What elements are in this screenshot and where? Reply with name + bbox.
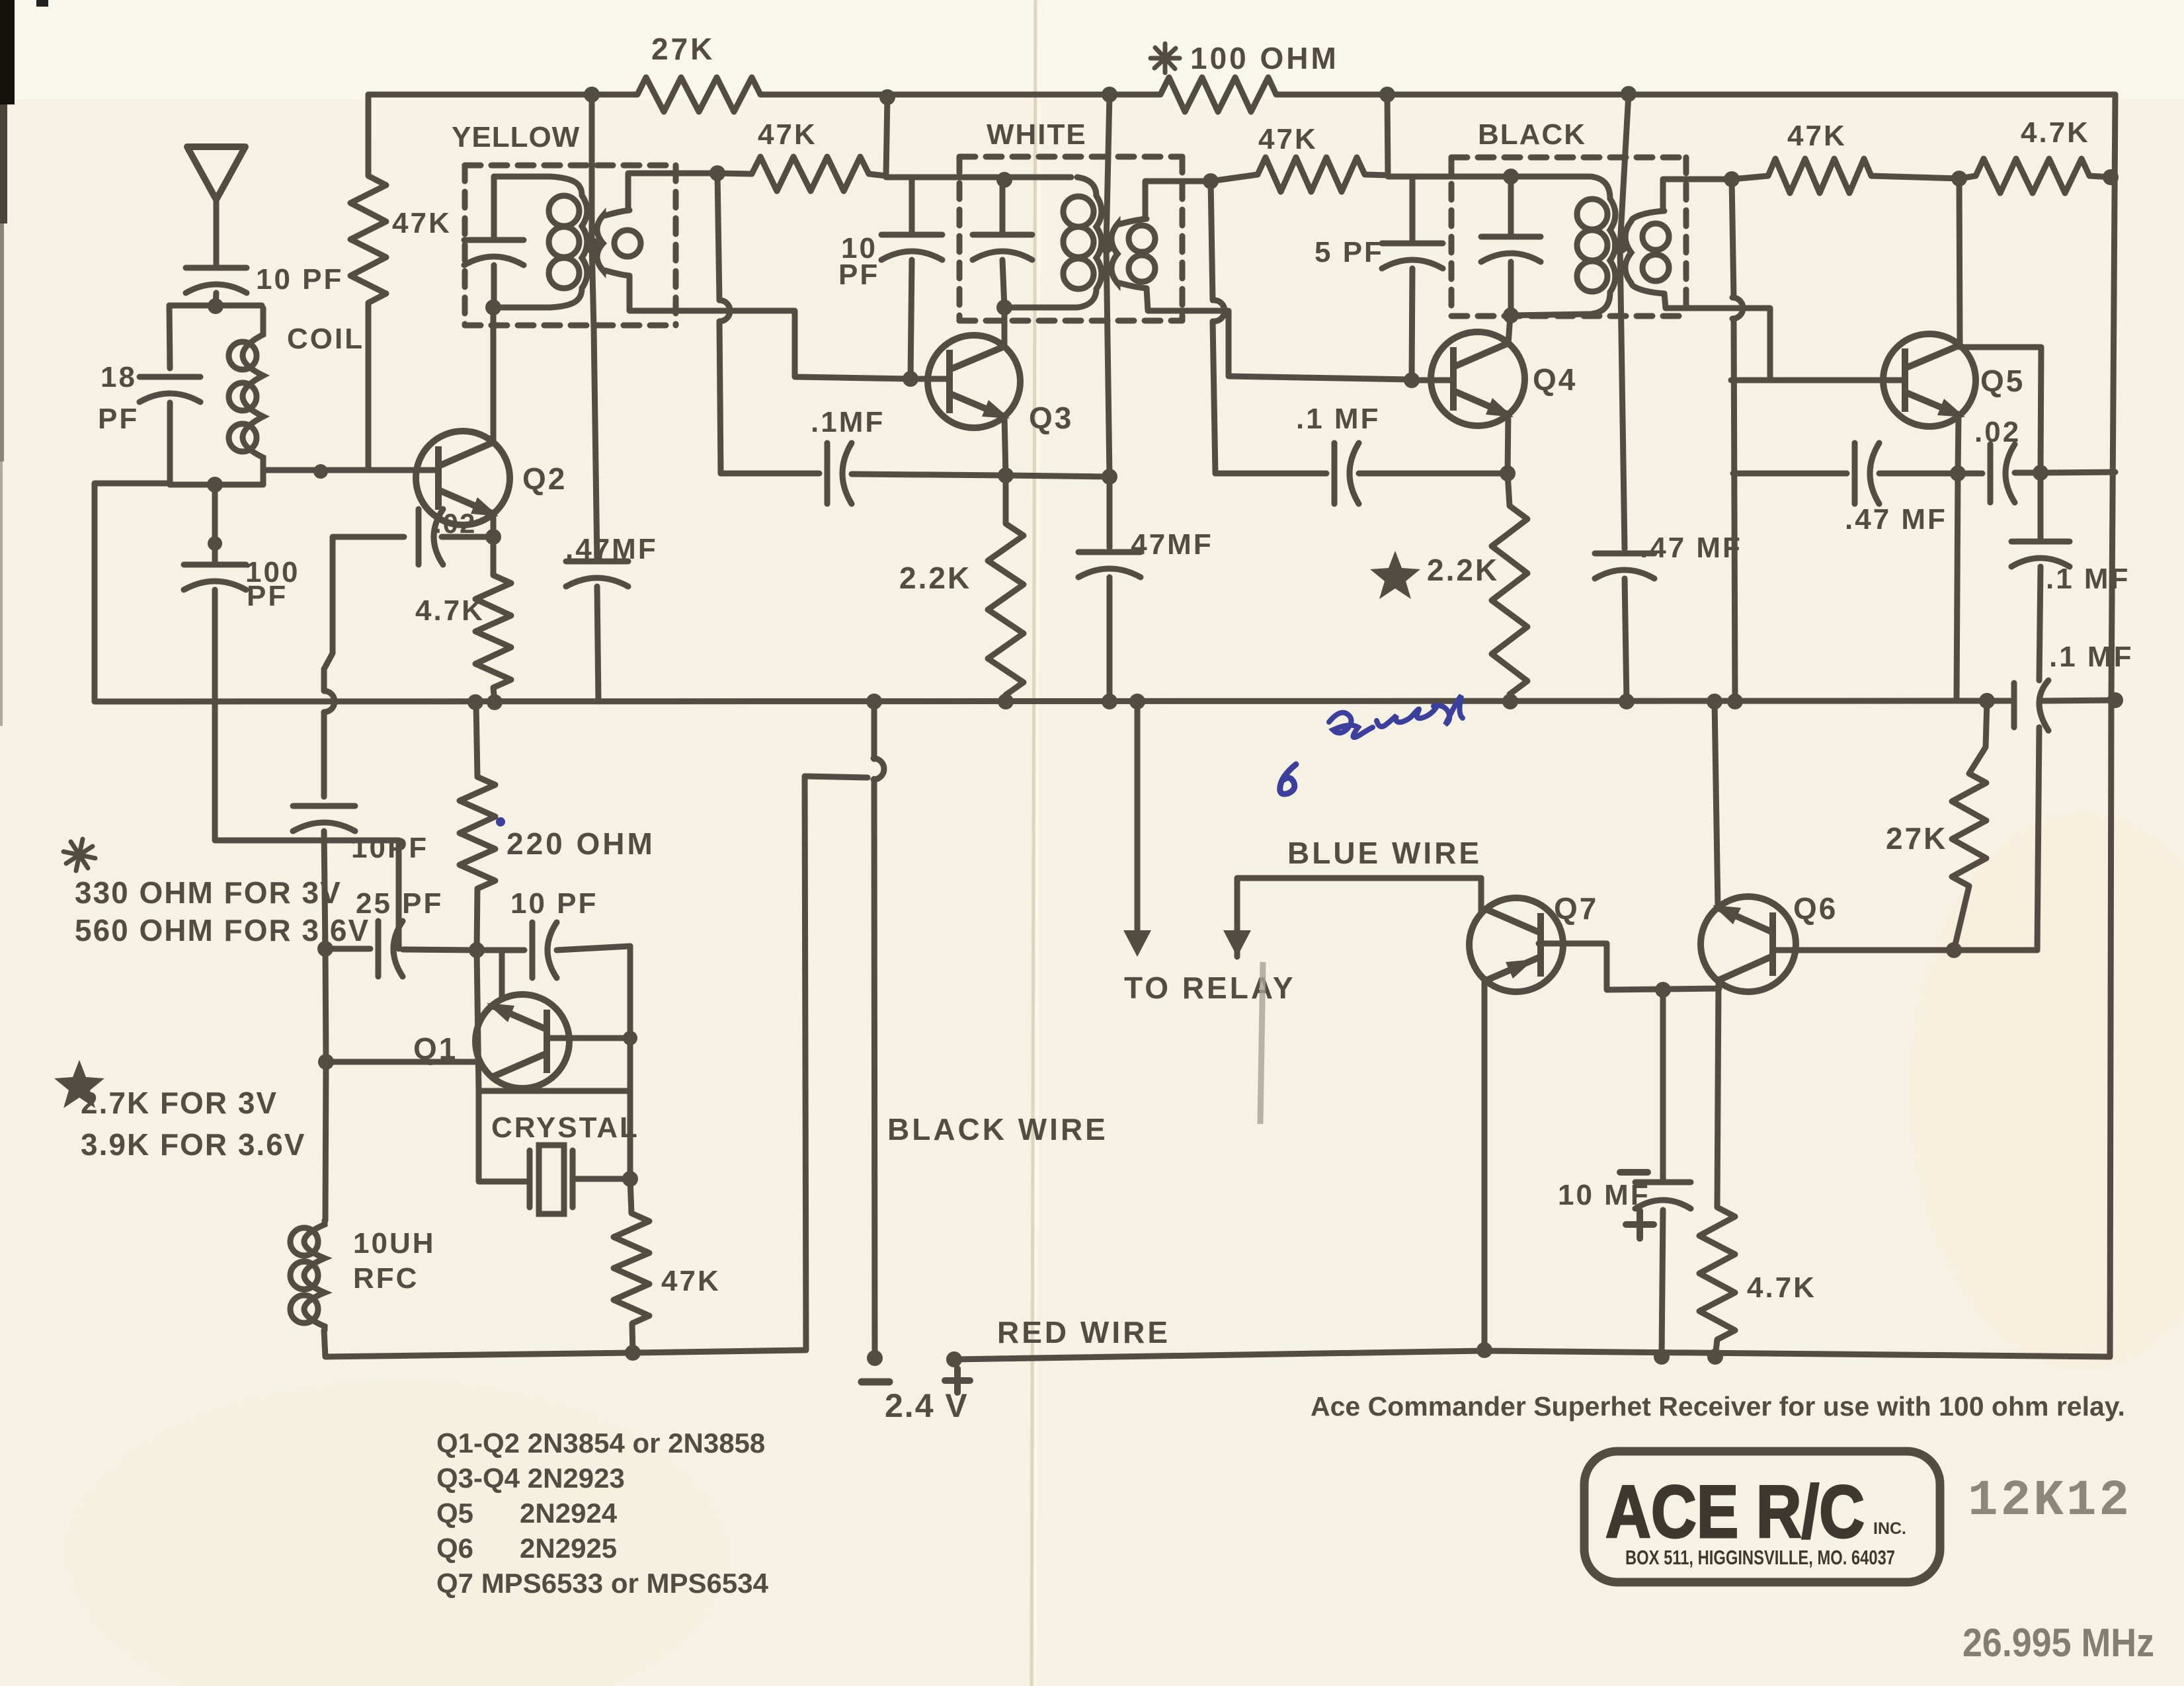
wire A to Q1 emitter <box>557 946 630 950</box>
wire A2 to 47K <box>1211 175 1258 181</box>
resistor 100 OHM (top rail) <box>1160 77 1276 112</box>
wire 5PF down to base <box>1412 268 1412 380</box>
node bus right end <box>2107 692 2123 708</box>
capacitor 5 PF (Q4 coupling) <box>1382 243 1443 268</box>
capacitor T3 primary tuning <box>1481 237 1541 262</box>
svg-text:10PF: 10PF <box>351 832 428 864</box>
svg-text:BLACK: BLACK <box>1478 118 1586 151</box>
transistor Q3 <box>928 335 1020 428</box>
wire A1 corner to .1MF <box>721 471 819 477</box>
wire Q4 collector up <box>1508 315 1510 344</box>
wire cap line below bus <box>321 713 327 797</box>
svg-text:COIL: COIL <box>287 323 364 355</box>
hop/bulge on black wire <box>873 758 884 780</box>
node Q2 base wire <box>313 464 328 479</box>
svg-text:47K: 47K <box>392 207 452 239</box>
wire A1 line down2 <box>719 321 721 473</box>
wire 47K-osc bottom lead <box>632 1324 633 1353</box>
svg-text:18: 18 <box>101 361 137 393</box>
wire 4.7K to ground bus <box>493 688 495 702</box>
antenna <box>187 147 245 200</box>
wire .1MF-4 bottom lead <box>2039 567 2041 680</box>
wire antenna stem <box>214 197 220 267</box>
wire T1 cap top lead <box>491 177 497 239</box>
node T3 primary top cap <box>1503 169 1519 184</box>
wire Q5 emitter down <box>1958 415 1959 473</box>
wire ground line A4 down <box>1732 179 1734 298</box>
wire Q5 collector up <box>1959 179 1960 346</box>
svg-text:47K: 47K <box>661 1265 721 1297</box>
wire 27K top lead <box>1969 701 1987 774</box>
capacitor .1MF (in bus) flat plate <box>2011 683 2017 727</box>
svg-text:.02: .02 <box>1974 416 2021 448</box>
star mark left <box>54 1060 104 1108</box>
wire RFC top <box>325 1062 326 1221</box>
svg-text:Q3: Q3 <box>1029 401 1073 435</box>
svg-text:Q5: Q5 <box>1980 364 2025 398</box>
wire top rail mid segment <box>760 92 1160 98</box>
wire crystal branch vertical <box>477 950 527 1182</box>
svg-text:10 MF: 10 MF <box>1558 1179 1650 1211</box>
wire T3 primary bottom <box>1511 314 1591 315</box>
wire 4.7K-3 to red wire <box>1715 1340 1717 1357</box>
svg-text:Q4: Q4 <box>1533 362 1577 397</box>
node bus 2.2K Q3 <box>998 694 1014 709</box>
svg-text:PF: PF <box>247 580 288 612</box>
wire A4 to 47K <box>1732 176 1768 179</box>
label minus (10MF) <box>1620 1169 1648 1176</box>
wire B3 to rail <box>1387 95 1388 175</box>
node bus .47MF-3 <box>1619 694 1635 709</box>
dashed box WHITE left <box>957 157 963 321</box>
wire Q5 base <box>1731 378 1902 383</box>
capacitor 10 PF (osc lower) <box>532 922 557 978</box>
wire T2 secondary top <box>1145 181 1211 219</box>
wire T3 sec bottom staircase <box>1664 294 1770 380</box>
label plus (10MF) <box>1626 1211 1654 1238</box>
node A2 (T2 sec top / 47K) <box>1203 173 1219 189</box>
inductor T2 primary coil <box>1063 177 1102 307</box>
wire ground bus right of cap <box>2043 700 2117 701</box>
resistor 4.7K (Q2 emitter) <box>475 575 511 688</box>
wire 2.2K-1 to bus <box>1003 695 1009 702</box>
node 25PF left <box>317 941 333 957</box>
wire .47MF-2 to bus <box>1107 577 1113 702</box>
wire Q7 base jog <box>1539 943 1719 990</box>
transistor Q5 <box>1883 334 1976 426</box>
wire T3 secondary top <box>1663 179 1732 211</box>
svg-text:330 OHM FOR 3V: 330 OHM FOR 3V <box>75 875 342 910</box>
svg-text:5 PF: 5 PF <box>1314 236 1384 268</box>
node battery minus <box>867 1350 883 1366</box>
wire top rail right segment <box>1276 92 2115 98</box>
wire Q6 collector down <box>1717 983 1719 1207</box>
transistor Q4 <box>1431 332 1525 426</box>
transistor Q2 <box>416 431 510 525</box>
wire tank top <box>169 303 262 309</box>
dashed box WHITE bottom <box>959 318 1182 324</box>
wire Q3 emitter to 2.2K <box>1003 475 1009 524</box>
node T1 primary bottom / Q2 collector <box>485 300 501 315</box>
svg-text:.1 MF: .1 MF <box>2046 563 2130 595</box>
wire .1MF to Q4 emitter <box>1359 471 1508 477</box>
capacitor 10 PF (osc feedback upper) <box>293 806 355 831</box>
wire tank bottom <box>170 482 263 488</box>
wire 10PF-W down to base <box>910 260 912 379</box>
svg-text:10 PF: 10 PF <box>510 887 598 920</box>
dashed box YELLOW right <box>673 165 679 325</box>
wire .47MF-1 to bus <box>597 586 598 702</box>
capacitor T1 primary tuning <box>464 240 524 265</box>
node bus 220 <box>467 694 483 710</box>
svg-text:47K: 47K <box>758 118 817 151</box>
wire .02 left lead down <box>324 537 404 690</box>
scan black edge <box>0 0 15 104</box>
transistor Q7 <box>1469 898 1563 992</box>
resistor 27K (Q6 base) <box>1952 774 1986 886</box>
resistor 2.2K (Q3) <box>988 524 1024 695</box>
capacitor .47 MF (T3 line) <box>1595 553 1654 579</box>
node bus to-relay <box>1129 694 1145 709</box>
capacitor .47MF (T2 line) <box>1078 552 1141 577</box>
wire tank left upper <box>169 305 170 368</box>
hop over ground bus (left cap line) <box>324 691 335 712</box>
svg-text:560 OHM FOR 3.6V: 560 OHM FOR 3.6V <box>75 913 370 947</box>
node tank bottom <box>207 477 223 493</box>
node A4 (T3 sec top) <box>1724 171 1740 187</box>
node B4 <box>1951 171 1967 186</box>
svg-text:.47 MF: .47 MF <box>1640 532 1742 564</box>
wire Q3 collector up <box>1002 307 1008 347</box>
hop T3 staircase over ground line <box>1732 298 1743 319</box>
svg-text:Q1-Q2 2N3854 or 2N3858: Q1-Q2 2N3854 or 2N3858 <box>436 1427 765 1459</box>
capacitor 18 PF (tank) <box>140 377 200 402</box>
svg-text:PF: PF <box>838 259 879 291</box>
node Q6 base <box>1946 942 1962 958</box>
wire B to crystal branch <box>326 1059 479 1065</box>
wire .02 to junction <box>2015 470 2041 476</box>
node tank top <box>208 298 223 314</box>
wire B4 to 4.7K <box>1959 176 1976 179</box>
svg-text:BLACK WIRE: BLACK WIRE <box>887 1112 1108 1146</box>
wire Q4 emitter down <box>1508 413 1508 473</box>
svg-text:4.7K: 4.7K <box>415 594 485 627</box>
svg-text:YELLOW: YELLOW <box>452 121 580 153</box>
wire .1MF to Q3 emitter <box>852 474 1006 475</box>
node bus .47MF-2 <box>1102 694 1117 709</box>
dashed box BLACK right <box>1683 157 1689 316</box>
arrow to relay <box>1123 930 1151 957</box>
capacitor .1MF (Q3 emitter) <box>827 443 852 504</box>
svg-text:Q7 MPS6533 or MPS6534: Q7 MPS6533 or MPS6534 <box>436 1568 769 1599</box>
wire to-relay drop <box>1135 702 1141 930</box>
svg-text:Q2: Q2 <box>522 462 567 496</box>
hop T1 staircase over A1 line <box>719 300 730 321</box>
svg-text:ACE R/C: ACE R/C <box>1605 1470 1865 1553</box>
wire Q1 emitter drop <box>499 950 505 998</box>
wire 4.7K to right edge <box>2089 176 2112 177</box>
svg-text:2.7K FOR 3V: 2.7K FOR 3V <box>81 1086 278 1120</box>
capacitor 10 PF (antenna) <box>186 268 247 293</box>
capacitor .47MF (T1 line) <box>566 561 628 586</box>
capacitor 10 MF <box>1635 1182 1691 1209</box>
asterisk mark for 100 OHM <box>1151 44 1180 73</box>
wire .47MF-4 branch <box>1733 471 1847 477</box>
svg-text:26.995 MHz: 26.995 MHz <box>1962 1621 2154 1665</box>
capacitor 100 PF <box>184 565 246 590</box>
wire 10PF-W top lead <box>909 177 915 235</box>
node T3 winding junction <box>1612 238 1628 254</box>
node Q4 base <box>1404 372 1420 388</box>
svg-text:WHITE: WHITE <box>987 118 1087 151</box>
wire x953 vertical <box>627 946 633 1179</box>
capacitor T2 primary tuning <box>973 235 1032 260</box>
wire Q3 base <box>910 376 948 382</box>
inductor 10UH RFC <box>290 1221 325 1330</box>
wire emitter to .02 <box>1958 471 1982 477</box>
wire T1 junction to rail <box>589 95 595 245</box>
wire A1 line down <box>717 173 719 300</box>
node 220/25PF/10PF junction <box>469 942 485 958</box>
dashed box YELLOW left <box>462 165 468 325</box>
label minus (battery) <box>862 1379 889 1386</box>
svg-text:Q3-Q4 2N2923: Q3-Q4 2N2923 <box>436 1463 625 1494</box>
wire 220 bottom lead <box>477 889 477 950</box>
svg-text:100 OHM: 100 OHM <box>1190 41 1339 75</box>
node rail T2 <box>1102 87 1117 102</box>
wire T3 cap bottom lead <box>1508 262 1514 315</box>
wire tank left lower <box>167 403 173 485</box>
wire RFC bottom corner <box>324 1330 806 1357</box>
wire 10MF top lead <box>1660 990 1666 1182</box>
node bus 4.7K Q2 <box>487 694 503 710</box>
wire antenna cap to tank <box>216 293 216 305</box>
wire Q3 emitter down <box>1004 416 1006 475</box>
node red wire Q7 <box>1476 1342 1492 1358</box>
wire top rail left segment <box>368 92 637 98</box>
node Q5 emitter <box>1950 465 1966 481</box>
wire T1 primary top <box>494 174 550 180</box>
node rail T1 <box>584 87 600 102</box>
resistor 220 OHM <box>460 777 495 889</box>
node 47K bottom <box>625 1345 641 1361</box>
resistor 2.2K (Q4) <box>1492 506 1527 694</box>
wire 2.2K-2 to bus <box>1510 694 1510 702</box>
node T1 winding junction <box>584 237 600 253</box>
pencil smudge <box>1260 962 1263 1124</box>
logo ACE R/C box <box>1584 1451 1940 1582</box>
capacitor 25 PF <box>378 921 403 977</box>
resistor 47K (osc base) <box>614 1213 649 1324</box>
node 10MF top <box>1655 982 1671 998</box>
dashed box WHITE top <box>959 154 1182 160</box>
inductor T1 primary coil <box>549 177 587 307</box>
capacitor .47 MF (Q5 emitter) <box>1855 443 1879 504</box>
svg-text:27K: 27K <box>1886 821 1947 856</box>
svg-text:Q6 2N2925: Q6 2N2925 <box>436 1533 617 1564</box>
resistor 47K R-A (Q2 base bias) <box>350 176 386 303</box>
svg-text:4.7K: 4.7K <box>1747 1271 1816 1304</box>
svg-text:3.9K FOR 3.6V: 3.9K FOR 3.6V <box>81 1127 305 1162</box>
dashed box BLACK bottom <box>1451 313 1686 319</box>
svg-text:12K12: 12K12 <box>1968 1472 2132 1529</box>
handwriting 6 (blue ink) <box>1280 764 1296 794</box>
node A1 (T1 sec top / 47K) <box>709 165 725 181</box>
wire Q2 base <box>263 467 438 473</box>
node bus black wire <box>866 694 882 709</box>
svg-text:4.7K: 4.7K <box>2021 116 2090 149</box>
capacitor .02 (Q5) <box>1990 444 2015 502</box>
transistor Q1 <box>475 994 569 1088</box>
inductor T3 secondary coil <box>1625 211 1669 294</box>
wire Q5 emitter line to bus <box>1957 473 1958 700</box>
wire crystal right <box>573 1176 630 1182</box>
node bus ground line T3 <box>1727 694 1743 709</box>
capacitor .1MF (in bus) curved plate <box>2039 680 2048 731</box>
wire BLACK primary top <box>1388 174 1590 180</box>
wire T2 primary bottom <box>1004 305 1077 311</box>
wire 10MF bottom lead <box>1662 1210 1663 1357</box>
wire .47MF-4 to emitter <box>1879 471 1958 477</box>
wire 5PF top lead <box>1410 177 1416 243</box>
wire bus-cap line down to Q6 base ext <box>2037 727 2039 950</box>
transistor Q6 <box>1701 897 1796 992</box>
svg-text:Q5 2N2924: Q5 2N2924 <box>436 1498 618 1529</box>
wire T1 primary bottom <box>493 305 550 311</box>
wire A2 corner to .1MF <box>1215 471 1326 477</box>
node below tank <box>208 536 222 551</box>
svg-text:Q7: Q7 <box>1554 891 1598 926</box>
capacitor .1MF (detector) <box>2011 542 2070 567</box>
node Q4 emitter <box>1500 465 1516 481</box>
wire T3 cap top lead <box>1508 177 1514 237</box>
resistor 27K (top rail) <box>637 77 760 112</box>
wire WHITE primary top <box>886 175 1071 181</box>
wire .02 right lead <box>442 534 493 540</box>
svg-text:RED WIRE: RED WIRE <box>997 1315 1170 1349</box>
wire T1 secondary top <box>628 173 717 210</box>
node bus 2.2K Q4 <box>1502 694 1518 709</box>
wire T1 junction down <box>592 245 597 561</box>
wire down to wireB <box>325 949 326 1062</box>
svg-text:27K: 27K <box>651 32 715 66</box>
wire junction to right edge <box>2041 472 2115 473</box>
node Q3 base <box>903 371 918 387</box>
svg-text:.1 MF: .1 MF <box>1296 403 1380 435</box>
node wireB left <box>318 1054 334 1070</box>
wire A left <box>325 946 370 952</box>
star mark 2.2K <box>1370 551 1420 599</box>
wire ground bus <box>95 701 2010 702</box>
wire T2 cap top lead <box>1000 179 1006 235</box>
svg-text:10 PF: 10 PF <box>256 263 343 296</box>
wire T2 sec bottom staircase <box>1147 288 1412 380</box>
node Q1 base <box>623 1031 637 1045</box>
dashed box YELLOW bottom <box>465 323 676 329</box>
wire Q3 emitter node to T2 line <box>1006 475 1110 477</box>
svg-text:TO RELAY: TO RELAY <box>1124 971 1296 1005</box>
svg-text:BLUE WIRE: BLUE WIRE <box>1287 836 1482 870</box>
node rail T3 <box>1621 86 1637 102</box>
svg-text:2.2K: 2.2K <box>1427 553 1499 587</box>
wire A mid <box>403 949 477 950</box>
page crease <box>1031 0 1035 1686</box>
wire T1 cap bottom lead <box>491 265 497 307</box>
wire .1MF-4 top lead <box>2038 473 2044 541</box>
capacitor .1MF (Q4 emitter) <box>1334 443 1359 504</box>
wire black wire <box>871 702 877 759</box>
wire ground line A4 down2 <box>1734 319 1735 702</box>
wire cap line to 25PF node <box>324 831 325 949</box>
svg-text:.1MF: .1MF <box>811 406 885 438</box>
node T2 winding junction <box>1098 237 1114 253</box>
svg-text:INC.: INC. <box>1873 1519 1906 1538</box>
dashed box BLACK top <box>1451 155 1686 161</box>
wire 47K-1 bottom lead <box>366 303 372 470</box>
inductor T3 primary coil <box>1577 177 1615 314</box>
node T2 primary top cap <box>996 172 1012 188</box>
wire 100PF down and right <box>215 590 399 949</box>
wire Q7 emitter down <box>1482 979 1488 1350</box>
wire 27K bottom lead <box>1954 886 1969 950</box>
wire red wire <box>954 1351 2110 1359</box>
wire left return vertical <box>805 776 868 1350</box>
wire A2 line down2 <box>1213 321 1215 473</box>
wire A2 line down <box>1211 181 1213 300</box>
wire .47MF-3 to bus <box>1625 579 1627 702</box>
svg-text:.1 MF: .1 MF <box>2049 641 2133 673</box>
node red wire 4.7K <box>1707 1349 1723 1365</box>
inductor COIL (antenna tank) <box>229 308 263 485</box>
wire Q6 base wire <box>1776 947 2037 953</box>
resistor 47K (T2 stage) <box>1258 157 1365 192</box>
wire T1 sec bottom staircase <box>629 276 910 379</box>
wire Q4 base <box>1412 378 1452 383</box>
wire Q2 collector up <box>491 307 497 443</box>
svg-text:PF: PF <box>98 403 139 435</box>
wire right edge vertical <box>2110 95 2115 1357</box>
svg-text:47K: 47K <box>1258 123 1318 155</box>
svg-text:BOX 511, HIGGINSVILLE, MO. 640: BOX 511, HIGGINSVILLE, MO. 64037 <box>1625 1546 1895 1569</box>
node bus 27K <box>1979 693 1995 709</box>
wire 47K-osc top lead <box>630 1179 631 1213</box>
wire T3 junction line <box>1620 94 1629 549</box>
wire blue wire run <box>1237 878 1481 957</box>
wire A1 to 47K <box>717 173 752 174</box>
dashed box YELLOW <box>465 163 676 169</box>
svg-text:.02: .02 <box>434 508 476 539</box>
wire A right <box>477 947 524 953</box>
node .02 / .1MF junction <box>2033 465 2048 481</box>
node right edge 4.7K <box>2103 169 2119 185</box>
node T2 primary bottom / Q3 collector <box>996 300 1012 315</box>
wire T2 junction line <box>1106 95 1110 547</box>
wire Q2 emitter down <box>491 513 497 575</box>
wire 220 top lead <box>476 703 477 777</box>
node rail B3 <box>1379 87 1395 102</box>
resistor 47K (T1 stage) <box>752 157 869 191</box>
node red wire 10MF <box>1654 1349 1670 1365</box>
inductor T1 secondary coil <box>597 210 641 276</box>
svg-text:Q6: Q6 <box>1793 891 1838 926</box>
node battery plus <box>946 1351 962 1367</box>
svg-text:10UH: 10UH <box>353 1227 436 1260</box>
inductor T2 secondary coil <box>1112 219 1155 288</box>
wire 47K to B2 node <box>869 174 886 176</box>
wire Q7 collector from blue <box>1478 878 1484 914</box>
node T3 primary bottom / Q4 collector <box>1503 307 1519 323</box>
blue ink dot <box>496 817 505 826</box>
